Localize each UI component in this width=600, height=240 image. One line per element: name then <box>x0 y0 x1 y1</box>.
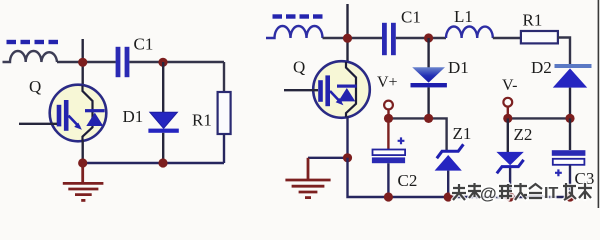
svg-text:D1: D1 <box>448 58 469 77</box>
terminal V+ circle <box>384 101 393 110</box>
watermark 头条@卧龙会IT技术 <box>452 183 592 203</box>
resistor R1 (right) <box>521 31 558 43</box>
zener Z1 <box>435 144 464 197</box>
wire: V+ stem <box>387 109 389 118</box>
inductor (left input coil) <box>3 51 58 62</box>
wire: gate lead (left) <box>19 123 57 125</box>
wire: right bottom rail <box>348 158 571 197</box>
wire: top stub above junction <box>81 39 83 63</box>
node: junction above D1 (left) <box>158 58 167 67</box>
svg-text:Z1: Z1 <box>453 124 472 143</box>
svg-text:Z2: Z2 <box>514 125 533 144</box>
wire: left top rail (coil to C1) <box>57 61 116 63</box>
dashed line above left inductor <box>7 40 59 44</box>
svg-text:C1: C1 <box>134 35 154 54</box>
wire: gate lead (right) <box>284 89 318 91</box>
inductor (right input coil) <box>266 26 323 38</box>
wire: emitter drop to ground junction <box>81 141 83 163</box>
label R1 (left) <box>192 111 212 130</box>
wire: collector drop to right Q <box>346 39 348 64</box>
capacitor C2 <box>372 118 405 197</box>
svg-text:C1: C1 <box>401 8 421 27</box>
capacitor C1 (left) <box>116 47 130 77</box>
label C1 (left) <box>134 35 154 54</box>
wire: left bottom rail <box>83 162 224 164</box>
label Q (right) <box>293 58 305 77</box>
transistor Q (right IGBT) <box>313 61 370 118</box>
right edge border line <box>598 0 600 208</box>
node: C2 bottom junction <box>384 192 393 201</box>
wire: V+ rail to Z1 <box>389 118 447 151</box>
capacitor C3 <box>552 118 586 197</box>
label C3 <box>575 169 595 188</box>
label D2 <box>531 58 552 77</box>
wire: R1 to D2 corner <box>558 38 570 65</box>
wire: right ground branch <box>308 157 348 159</box>
node: D1-bottom junction <box>424 114 433 123</box>
ground (right) <box>285 158 330 198</box>
svg-text:IT: IT <box>544 185 558 202</box>
svg-text:D1: D1 <box>123 107 144 126</box>
label D1 (left) <box>123 107 144 126</box>
label Q (left) <box>29 77 41 96</box>
wire: V- rail to D2/C3 <box>508 117 570 119</box>
node: Z2 bottom junction <box>506 192 515 201</box>
wire: right emitter drop <box>346 116 348 158</box>
label D1 (right) <box>448 58 469 77</box>
wire: L1 to R1 <box>493 37 521 39</box>
ground (left) <box>63 163 104 200</box>
terminal V- circle <box>503 98 512 107</box>
label C2 <box>398 171 418 190</box>
label V+ <box>377 74 398 91</box>
svg-text:D2: D2 <box>531 58 552 77</box>
dashed line above right inductor <box>273 14 323 18</box>
wire: C1 to D1 junction to L1 <box>396 37 446 39</box>
wire: V- stem <box>507 107 509 119</box>
wire: C1 to D1 junction to R1 corner <box>129 61 224 63</box>
svg-text:V-: V- <box>502 77 517 94</box>
inductor L1 <box>446 26 493 38</box>
node: D1 bottom junction (left) <box>158 158 167 167</box>
zener Z2 <box>496 118 523 197</box>
node: junction at right coil/C1 <box>343 34 352 43</box>
svg-text:V+: V+ <box>377 74 398 91</box>
label R1 (right) <box>523 11 543 30</box>
node: emitter junction (right) <box>343 153 352 162</box>
node: D2-bottom junction <box>565 114 574 123</box>
node: C3 bottom junction <box>565 192 574 201</box>
label C1 (right) <box>401 8 421 27</box>
node: emitter/ground junction (left) <box>78 158 87 167</box>
svg-text:L1: L1 <box>454 7 473 26</box>
node: V+ junction <box>384 114 393 123</box>
wire: top stub above right junction <box>346 4 348 39</box>
diode D2 <box>553 64 592 118</box>
wire: collector drop to Q <box>81 63 83 87</box>
node: Z1 bottom junction <box>444 192 453 201</box>
diode D1 (left) <box>148 62 178 163</box>
transistor Q (left IGBT) <box>50 85 107 142</box>
svg-text:R1: R1 <box>192 111 212 130</box>
label L1 <box>454 7 473 26</box>
svg-text:Q: Q <box>29 77 41 96</box>
node: junction at left coil/C1 <box>78 58 87 67</box>
resistor R1 (left) <box>218 62 231 163</box>
label Z1 <box>453 124 472 143</box>
svg-text:C2: C2 <box>398 171 418 190</box>
diode D1 (right) <box>411 38 447 118</box>
node: V- junction <box>503 114 512 123</box>
label Z2 <box>514 125 533 144</box>
svg-text:R1: R1 <box>523 11 543 30</box>
svg-text:@: @ <box>480 184 497 203</box>
svg-text:Q: Q <box>293 58 305 77</box>
node: junction above D1 (right) <box>424 33 433 42</box>
wire: right top rail (coil to C1) <box>323 37 383 39</box>
label V- <box>502 77 517 94</box>
capacitor C1 (right) <box>382 23 396 55</box>
